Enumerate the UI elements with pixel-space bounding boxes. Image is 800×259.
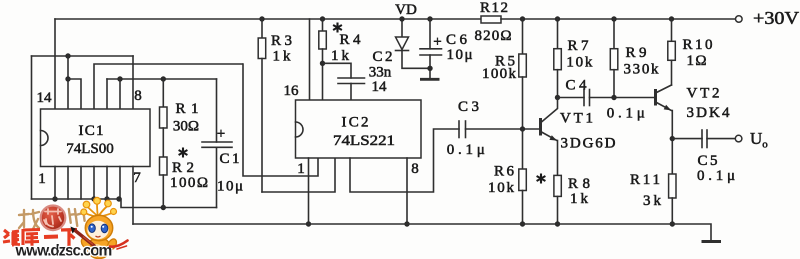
svg-text:+: +: [217, 126, 225, 142]
resistor R2: [160, 157, 168, 208]
junction dot C5: [670, 136, 675, 141]
svg-text:C2: C2: [373, 49, 393, 65]
wire C4 to VT2 base: [614, 97, 654, 99]
capacitor C4: [558, 90, 615, 106]
svg-text:10k: 10k: [488, 180, 515, 196]
capacitor C2: [323, 63, 365, 100]
svg-text:www.dzsc.com: www.dzsc.com: [15, 243, 113, 259]
junction dot VD C6: [427, 66, 432, 71]
svg-text:Uo: Uo: [750, 129, 768, 151]
junction dot pin6: [116, 196, 121, 201]
svg-text:8: 8: [134, 88, 142, 104]
svg-text:1k: 1k: [570, 191, 589, 207]
wire IC1 pin12 branch: [68, 79, 81, 109]
wire IC1 pin9: [119, 79, 121, 109]
junction dot pin5: [104, 196, 109, 201]
svg-text:R11: R11: [630, 172, 660, 188]
svg-text:0.1μ: 0.1μ: [607, 106, 645, 122]
svg-text:C1: C1: [220, 151, 240, 167]
svg-text:+30V: +30V: [753, 8, 799, 28]
wire IC1 pin2: [67, 167, 69, 200]
svg-text:1: 1: [38, 171, 46, 187]
svg-text:14: 14: [37, 90, 53, 106]
svg-text:VT1: VT1: [560, 111, 593, 127]
svg-text:820Ω: 820Ω: [475, 28, 512, 44]
op-amp IC2 74LS221 body: [296, 100, 422, 158]
svg-text:VD: VD: [395, 2, 417, 18]
wire net-C to IC2 pin2: [243, 64, 318, 176]
junction dot R9 rail: [611, 16, 616, 21]
svg-text:74LS00: 74LS00: [66, 141, 114, 157]
watermark mascot arms: [79, 236, 92, 250]
junction dot R7 rail: [555, 16, 560, 21]
svg-text:1k: 1k: [331, 48, 350, 64]
svg-text:8: 8: [411, 161, 419, 177]
ground symbol: [702, 240, 722, 243]
svg-text:C4: C4: [566, 78, 588, 94]
svg-text:C5: C5: [698, 153, 718, 169]
wire IC1 pin11 net-C y64: [94, 64, 243, 109]
junction dot pin9: [117, 76, 122, 81]
wire IC1 pin7 to ground: [132, 167, 134, 225]
svg-text:R7: R7: [568, 38, 590, 54]
svg-text:1: 1: [297, 161, 305, 177]
junction dot R1 top: [161, 76, 166, 81]
wire +30V rail left segment: [55, 18, 481, 20]
svg-text:1k: 1k: [273, 49, 292, 65]
svg-text:R10: R10: [683, 37, 713, 53]
terminal +30V: [736, 16, 743, 23]
wire IC1 pin3: [80, 167, 82, 200]
watermark stamp circle 芯: [41, 206, 66, 231]
wire net-B horizontal y79: [107, 78, 217, 80]
watermark: [3, 197, 128, 259]
watermark mascot head: [85, 215, 112, 240]
svg-text:74LS221: 74LS221: [333, 133, 395, 149]
svg-text:+: +: [433, 34, 441, 50]
wire net-A bottom bus: [32, 199, 217, 208]
svg-text:100Ω: 100Ω: [170, 175, 208, 191]
svg-text:IC1: IC1: [79, 123, 104, 139]
svg-text:C6: C6: [446, 32, 468, 48]
junction dot pin4: [91, 196, 96, 201]
diode VD: [396, 19, 431, 68]
svg-text:100k: 100k: [482, 66, 517, 82]
wire IC1 pin4: [93, 167, 95, 200]
一: [44, 235, 58, 240]
junction dot pin1 ground: [306, 221, 311, 226]
watermark pen: [71, 227, 96, 247]
resistor R1: [160, 79, 168, 128]
junction dot C6 rail: [427, 16, 432, 21]
svg-text:330k: 330k: [624, 61, 660, 77]
junction dot net-A x68: [65, 53, 70, 58]
transistor VT2: [656, 85, 673, 174]
下: [61, 230, 77, 247]
svg-text:14: 14: [372, 79, 388, 95]
terminal Uo: [735, 135, 742, 142]
resistor R10: [668, 19, 676, 85]
watermark char 找: [19, 210, 39, 229]
svg-text:10μ: 10μ: [447, 47, 473, 63]
svg-text:R12: R12: [480, 0, 508, 16]
asterisk R8: [537, 174, 546, 184]
junction dot C4 right: [611, 95, 616, 100]
junction dot R2 bottom: [161, 205, 166, 210]
resistor R8: [554, 175, 561, 224]
resistor R5: [519, 19, 527, 129]
junction dot C4 left: [555, 95, 560, 100]
svg-text:7: 7: [133, 170, 141, 186]
capacitor C6: [420, 19, 442, 78]
svg-text:10μ: 10μ: [217, 179, 243, 195]
resistor R6: [519, 129, 527, 224]
wire IC1 pin5: [106, 167, 108, 200]
svg-text:C3: C3: [458, 99, 479, 115]
junction dot R8 ground: [555, 221, 560, 226]
watermark char 片: [69, 207, 85, 227]
capacitor C1: [202, 79, 232, 208]
wire ground bus: [133, 224, 711, 241]
junction dot pin1: [52, 196, 57, 201]
wire IC2 pin4 to C3: [350, 129, 459, 192]
svg-text:30Ω: 30Ω: [173, 119, 199, 135]
svg-text:R4: R4: [340, 32, 362, 48]
wire IC1 pin1: [54, 167, 56, 200]
wire net-A horizontal y56: [32, 55, 134, 57]
svg-text:3k: 3k: [643, 193, 662, 209]
junction dot R10 rail: [669, 16, 674, 21]
watermark mascot body: [88, 238, 111, 259]
junction dot R5 rail: [520, 16, 525, 21]
ground symbol C6: [420, 78, 440, 81]
svg-text:R8: R8: [568, 176, 590, 192]
svg-text:16: 16: [284, 83, 300, 99]
wire IC1 pin13 vertical: [67, 56, 69, 109]
junction dot VT1 base: [520, 126, 525, 131]
wire IC2 pin1 to ground: [308, 158, 310, 224]
junction dot pin8 ground: [404, 221, 409, 226]
svg-text:IC2: IC2: [342, 115, 369, 131]
svg-text:R6: R6: [494, 164, 515, 180]
wire IC1 pin8 from y56: [132, 56, 134, 109]
capacitor C5: [672, 130, 735, 148]
resistor R9: [610, 19, 618, 98]
junction dot R4 bottom: [320, 61, 325, 66]
wire net-A left vertical: [31, 56, 33, 199]
wire IC1 pin6: [119, 167, 121, 200]
wire IC1 pin10: [106, 79, 108, 109]
junction dot VD rail: [399, 16, 404, 21]
svg-text:VT2: VT2: [687, 86, 720, 102]
asterisk R4: [333, 23, 342, 33]
wire R1 to R2: [162, 128, 164, 157]
svg-text:R9: R9: [626, 45, 647, 61]
junction dot R3 rail: [259, 16, 264, 21]
svg-text:R3: R3: [271, 33, 292, 49]
wire IC2 pin16 to rail: [309, 19, 311, 100]
junction dot R4 rail: [320, 16, 325, 21]
svg-text:3DG6D: 3DG6D: [561, 136, 616, 152]
wire IC1 pin14 to rail: [54, 19, 56, 109]
wire IC2 pin8 to ground: [406, 158, 408, 224]
op-amp IC1 74LS00 body: [41, 109, 151, 167]
transistor VT1: [541, 98, 558, 176]
svg-text:0.1μ: 0.1μ: [447, 142, 485, 158]
维: [3, 230, 20, 245]
svg-text:R2: R2: [172, 160, 194, 176]
svg-text:0.1μ: 0.1μ: [697, 168, 735, 184]
watermark mascot crown: [81, 197, 117, 217]
capacitor C3: [459, 121, 539, 138]
库: [23, 229, 40, 246]
junction dot R6 ground: [520, 221, 525, 226]
resistor R7: [554, 19, 562, 98]
resistor R3: [258, 19, 266, 192]
resistor R11: [669, 174, 676, 224]
svg-text:10k: 10k: [566, 55, 593, 71]
junction dot R11 ground: [670, 221, 675, 226]
junction dot pin12 branch: [65, 76, 70, 81]
resistor R12: [481, 16, 501, 23]
svg-text:3DK4: 3DK4: [687, 105, 731, 121]
wire +30V rail right segment: [501, 18, 735, 20]
asterisk R2: [179, 148, 188, 158]
watermark red flourish: [110, 241, 128, 250]
resistor R4: [319, 19, 327, 100]
watermark text 维库一下: [3, 229, 77, 246]
wire R3 to IC2 pin3: [262, 158, 335, 192]
svg-text:R1: R1: [176, 101, 199, 117]
svg-text:1Ω: 1Ω: [687, 53, 707, 69]
